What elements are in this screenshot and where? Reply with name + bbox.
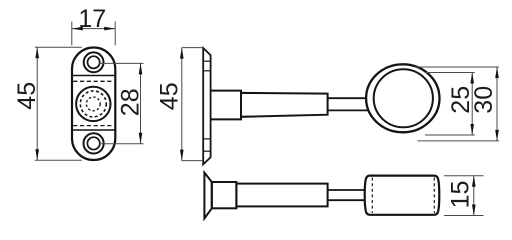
dimension 17 line — [72, 28, 115, 30]
dimension 28: extension bottom — [99, 143, 144, 145]
top screw hole inner — [88, 56, 100, 68]
dimension 28: line — [140, 63, 142, 143]
dimension 45 middle: line — [181, 48, 183, 161]
countersunk head profile — [204, 173, 211, 219]
dimension 45 left: arrow up — [35, 47, 39, 58]
ring inner — [374, 69, 433, 127]
cylinder dashed line left — [371, 178, 373, 213]
svg-text:15: 15 — [447, 181, 475, 209]
dimension 15: line — [473, 176, 475, 216]
dimension 25: arrow down — [470, 124, 474, 135]
dimension 45 left: line — [36, 47, 38, 160]
countersink tick lines bottom — [203, 138, 210, 140]
svg-text:30: 30 — [470, 86, 498, 114]
dimension 15: extension bottom — [444, 215, 484, 217]
rod top line — [328, 189, 365, 191]
dimension 45 left: extension top — [35, 46, 82, 48]
hidden dashed line upper — [73, 80, 114, 82]
connecting rod bottom line — [328, 109, 370, 111]
dimension 17 extension line left — [71, 22, 73, 46]
svg-text:17: 17 — [78, 5, 106, 33]
svg-text:45: 45 — [13, 82, 41, 110]
hub knurl dashed circle — [80, 91, 106, 117]
dimension 45 middle: extension bottom — [182, 160, 203, 162]
connecting rod top line — [328, 97, 368, 99]
dimension 28: arrow up — [139, 63, 143, 74]
dimension 28: extension top — [99, 62, 144, 64]
plate profile — [203, 48, 210, 164]
dimension 15: arrow up — [472, 176, 476, 187]
dimension 45 middle: arrow up — [180, 48, 184, 59]
neck box — [212, 182, 237, 208]
dimension 15: extension top — [444, 175, 484, 177]
dimension 45 left: arrow down — [35, 149, 39, 160]
dimension 45 left: extension bottom — [35, 159, 82, 161]
dimension 28: arrow down — [139, 133, 143, 144]
svg-text:28: 28 — [116, 88, 144, 116]
top screw hole outer — [84, 52, 104, 72]
dimension 45 middle: arrow down — [180, 150, 184, 161]
rod bottom line — [328, 199, 365, 201]
dimension 30: line — [496, 67, 498, 141]
bottom screw hole outer — [84, 133, 104, 153]
ring outer — [366, 64, 439, 132]
dimension 17 extension line right — [114, 22, 116, 46]
dimension 30: arrow up — [495, 67, 499, 78]
countersink tick lines top — [203, 60, 210, 62]
stem second section (tapered) — [241, 93, 328, 117]
boss edge line upper — [72, 75, 115, 77]
stem first section — [211, 91, 241, 120]
dimension 30: arrow down — [495, 130, 499, 141]
body box — [236, 184, 327, 207]
dimension 25: extension bottom — [425, 134, 475, 136]
svg-text:45: 45 — [155, 82, 183, 110]
dimension 25: extension top — [425, 72, 475, 74]
dimension 30: extension top — [415, 66, 499, 68]
dimension 17 arrow right — [104, 27, 115, 31]
cylinder dashed line right — [433, 178, 435, 213]
dimension 45 middle: extension top — [182, 47, 202, 49]
dimension 15: arrow down — [472, 205, 476, 216]
dimension 17 arrow left — [72, 27, 83, 31]
dimension 30: extension bottom — [418, 140, 500, 142]
bottom screw hole inner — [87, 137, 99, 149]
cylinder (ring seen from top) — [365, 176, 440, 215]
hub outer circle — [76, 87, 110, 121]
boss edge line lower — [72, 129, 115, 131]
hidden dashed line lower — [73, 125, 114, 127]
dimension 25: line — [471, 73, 473, 136]
plate outline (obround) — [72, 48, 115, 161]
hub inner dashed circle — [86, 97, 100, 111]
dimension 25: arrow up — [470, 73, 474, 84]
